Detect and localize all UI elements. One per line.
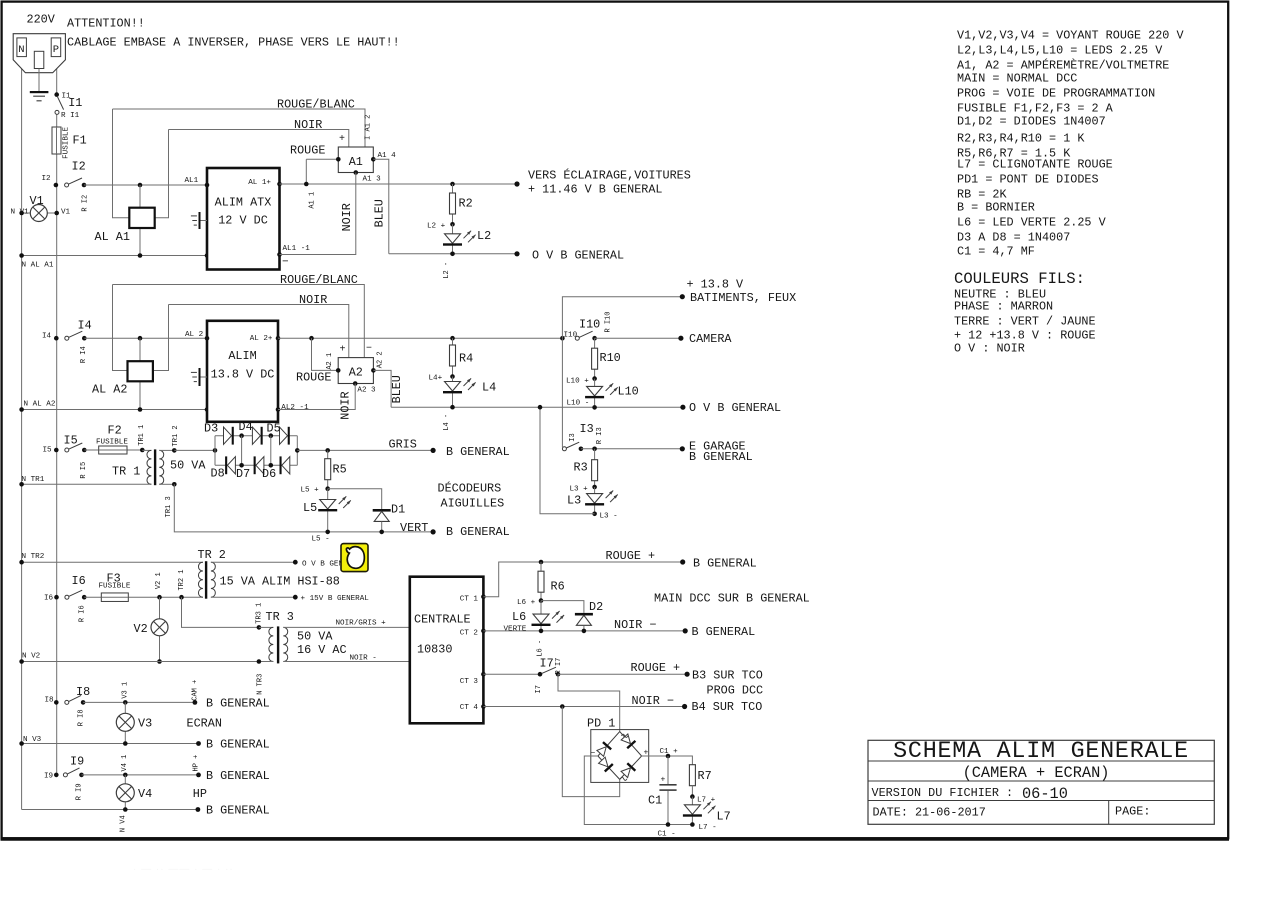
svg-text:L2 -: L2 -	[443, 262, 451, 279]
svg-text:V2 1: V2 1	[155, 572, 163, 589]
svg-text:I4: I4	[78, 319, 92, 333]
svg-text:C1 +: C1 +	[660, 748, 679, 756]
relay AL A2	[128, 361, 153, 381]
svg-text:R3: R3	[574, 461, 588, 475]
terminal HP B GENERAL	[196, 773, 201, 778]
svg-text:AL1: AL1	[185, 177, 199, 185]
wire: TR1 secondary to diode matrix	[174, 449, 215, 451]
svg-text:15 VA ALIM HSI-88: 15 VA ALIM HSI-88	[220, 575, 340, 589]
wire: A2 BLEU lead pin4 to 0V rail	[373, 370, 391, 407]
svg-text:N TR2: N TR2	[22, 553, 45, 561]
svg-text:TR 2: TR 2	[198, 548, 226, 562]
svg-text:ROUGE/BLANC: ROUGE/BLANC	[277, 98, 355, 112]
bridge diode bottom-right (B to R)	[627, 763, 635, 771]
junctions bottom chain	[239, 463, 244, 468]
bridge diode top-left (L to T)	[603, 742, 611, 749]
wire: I10 to CAMERA	[595, 337, 681, 339]
svg-text:TR1 1: TR1 1	[138, 425, 146, 446]
svg-text:R I5: R I5	[80, 462, 88, 479]
resistor R3	[594, 449, 596, 487]
svg-text:V4 1: V4 1	[121, 755, 129, 772]
svg-text:CT 4: CT 4	[460, 704, 479, 712]
svg-text:ALIM: ALIM	[228, 349, 256, 363]
svg-text:L5: L5	[303, 501, 317, 515]
svg-text:CT 2: CT 2	[460, 629, 479, 637]
svg-text:L2 +: L2 +	[427, 223, 446, 231]
svg-text:AL1 -1: AL1 -1	[283, 245, 311, 253]
resistor R4	[452, 338, 454, 376]
wire: I8 to CAM+ B GENERAL	[83, 701, 195, 703]
LED L7 clignotante	[691, 797, 693, 825]
svg-text:FUSIBLE: FUSIBLE	[99, 583, 131, 591]
transformer TR 1 primary	[142, 449, 151, 451]
terminal CAM B GENERAL	[193, 700, 198, 705]
resistor R7	[689, 765, 695, 786]
svg-text:N AL A2: N AL A2	[24, 401, 56, 409]
svg-text:TR 1: TR 1	[112, 465, 140, 479]
terminal B GENERAL (N V3)	[196, 741, 201, 746]
svg-text:N: N	[18, 44, 24, 56]
svg-text:· — ·· —— · — · ··: · — ·· —— · — · ··	[133, 864, 234, 875]
svg-text:−: −	[282, 257, 289, 269]
junction L3 anode	[592, 485, 597, 490]
wire: A1 BLEU lead pin4 to 0V rail	[373, 159, 389, 254]
wire: A1 NOIR lead pin3 to minus rail	[280, 173, 356, 255]
svg-text:R2,R3,R4,R10 = 1 K: R2,R3,R4,R10 = 1 K	[957, 132, 1085, 146]
svg-text:V4: V4	[138, 787, 152, 801]
wire: 0V rail to O V B GENERAL	[389, 253, 517, 255]
svg-text:D4: D4	[239, 420, 253, 434]
svg-text:NOIR/GRIS +: NOIR/GRIS +	[336, 619, 387, 627]
svg-text:L6 +: L6 +	[517, 599, 536, 607]
resistor R10	[594, 338, 596, 378]
wire: I7 jog to PD1 AC top	[558, 674, 620, 731]
svg-text:TR2 1: TR2 1	[178, 570, 186, 591]
transformer TR 2 core	[205, 561, 207, 599]
power supply ALIM 13.8 V DC box	[207, 321, 278, 422]
wire: CT1 to ROUGE+ rail	[483, 562, 682, 597]
svg-text:+ 11.46 V B GENERAL: + 11.46 V B GENERAL	[528, 183, 663, 197]
wire: I3 to E GARAGE	[581, 448, 682, 450]
svg-text:C1: C1	[648, 794, 662, 808]
svg-text:NOIR: NOIR	[340, 203, 354, 231]
svg-text:PROG = VOIE DE PROGRAMMATION: PROG = VOIE DE PROGRAMMATION	[957, 87, 1155, 101]
diode D1 branch	[328, 489, 382, 509]
junction L7 cathode	[690, 822, 695, 827]
ammeter A1 ROUGE lead	[305, 159, 307, 184]
svg-text:NOIR: NOIR	[339, 391, 353, 419]
svg-text:I4: I4	[42, 333, 52, 341]
wire: phase P vertical line lower	[56, 185, 58, 775]
svg-text:V1,V2,V3,V4 = VOYANT ROUGE 220: V1,V2,V3,V4 = VOYANT ROUGE 220 V	[957, 29, 1184, 43]
svg-text:NOIR -: NOIR -	[350, 654, 377, 662]
svg-text:AL 1+: AL 1+	[248, 179, 271, 187]
wire: ALIM 13.8 +13.8V output rail	[278, 337, 562, 339]
svg-text:R I6: R I6	[79, 605, 87, 622]
diode D8	[227, 457, 235, 474]
svg-text:B GENERAL: B GENERAL	[206, 804, 270, 818]
svg-text:TR3 1: TR3 1	[255, 603, 263, 624]
svg-text:VERS ÉCLAIRAGE,VOITURES: VERS ÉCLAIRAGE,VOITURES	[528, 169, 691, 183]
svg-text:R10: R10	[600, 351, 621, 365]
ammeter A2 ROUGE lead	[309, 336, 314, 341]
ground symbol inside ALIM 13.8	[201, 376, 208, 378]
svg-text:B = BORNIER: B = BORNIER	[957, 201, 1035, 215]
svg-text:FUSIBLE: FUSIBLE	[96, 439, 128, 447]
svg-text:B GENERAL: B GENERAL	[689, 450, 753, 464]
svg-text:PAGE:: PAGE:	[1115, 805, 1150, 819]
bridge diode bottom-left (L to B)	[605, 764, 613, 771]
wire: relay A2 top/bottom leads	[139, 338, 141, 409]
power supply ALIM ATX 12V DC box	[207, 168, 280, 270]
svg-text:ECRAN: ECRAN	[187, 717, 222, 731]
svg-text:O V : NOIR: O V : NOIR	[954, 342, 1025, 356]
svg-text:O V B GENERAL: O V B GENERAL	[689, 401, 781, 415]
svg-text:D5: D5	[267, 422, 281, 436]
svg-text:NOIR: NOIR	[294, 118, 322, 132]
voyant lamp V2	[159, 597, 161, 661]
svg-text:B GENERAL: B GENERAL	[446, 445, 510, 459]
svg-text:L3 -: L3 -	[600, 513, 618, 521]
svg-text:L4+: L4+	[429, 375, 443, 383]
svg-text:I A1 2: I A1 2	[365, 115, 373, 140]
capacitor C1	[667, 756, 669, 784]
svg-text:AL A1: AL A1	[95, 230, 130, 244]
junction L4 anode	[450, 374, 455, 379]
svg-text:R5: R5	[333, 463, 347, 477]
svg-text:R I10: R I10	[604, 312, 612, 333]
svg-text:ROUGE/BLANC: ROUGE/BLANC	[280, 273, 358, 287]
svg-text:I9: I9	[44, 772, 54, 780]
wire: I7 to B3 SUR TCO	[558, 673, 687, 675]
voyant lamp V4	[124, 775, 126, 810]
svg-text:D3 A D8 = 1N4007: D3 A D8 = 1N4007	[957, 231, 1070, 245]
transformer TR 2 secondary	[211, 562, 215, 597]
diode D5	[280, 427, 288, 444]
svg-text:A1, A2 = AMPÉREMÈTRE/VOLTMETRE: A1, A2 = AMPÉREMÈTRE/VOLTMETRE	[957, 59, 1169, 73]
transformer TR 1 secondary	[159, 450, 163, 484]
svg-text:16 V AC: 16 V AC	[297, 643, 347, 657]
wire: ROUGE/BLANC net 2 (A2 minus)	[113, 285, 365, 358]
terminal B3 SUR TCO	[685, 672, 690, 677]
svg-text:R I3: R I3	[596, 427, 604, 444]
wire: I9 to HP+ B GENERAL	[82, 774, 199, 776]
svg-text:50 VA: 50 VA	[297, 630, 333, 644]
LED L5	[327, 489, 329, 532]
svg-text:FUSIBLE F1,F2,F3 = 2 A: FUSIBLE F1,F2,F3 = 2 A	[957, 102, 1114, 116]
resistor R5	[325, 448, 330, 453]
svg-text:MAIN DCC SUR B GENERAL: MAIN DCC SUR B GENERAL	[654, 592, 810, 606]
svg-text:L4: L4	[482, 381, 496, 395]
svg-text:BATIMENTS, FEUX: BATIMENTS, FEUX	[690, 291, 796, 305]
wire: PD1 minus loop to C1-	[584, 756, 692, 825]
svg-text:I5: I5	[64, 434, 78, 448]
diode D3	[224, 427, 232, 444]
svg-text:−: −	[591, 749, 596, 758]
svg-text:L4 -: L4 -	[443, 414, 451, 431]
command station CENTRALE 10830 box	[410, 577, 484, 724]
resistor R2	[452, 184, 454, 224]
wire: bottom N return line	[22, 809, 198, 811]
svg-text:SCHEMA ALIM GENERALE: SCHEMA ALIM GENERALE	[893, 739, 1189, 765]
svg-text:L2: L2	[477, 229, 491, 243]
transformer TR 1 core	[154, 449, 156, 485]
svg-text:RB = 2K: RB = 2K	[957, 188, 1007, 202]
svg-text:R I2: R I2	[82, 195, 90, 212]
svg-text:I1: I1	[68, 96, 82, 110]
svg-text:CABLAGE EMBASE A INVERSER, PHA: CABLAGE EMBASE A INVERSER, PHASE VERS LE…	[67, 36, 400, 50]
yellow logo icon	[341, 544, 368, 572]
svg-text:V1: V1	[61, 209, 71, 217]
earth ground symbol under plug	[30, 91, 49, 93]
wire: N AL A2 line	[22, 409, 207, 411]
wire: I3 feed from +13.8 branch	[561, 338, 563, 447]
LED L10	[594, 379, 596, 408]
svg-text:L6 = LED VERTE 2.25 V: L6 = LED VERTE 2.25 V	[957, 216, 1107, 230]
svg-text:A2: A2	[349, 366, 363, 380]
svg-text:P: P	[53, 44, 59, 56]
svg-text:TR1 3: TR1 3	[165, 496, 173, 517]
svg-text:L7: L7	[717, 810, 731, 824]
junctions top chain	[239, 433, 244, 438]
wire: earth lead from plug	[38, 69, 40, 92]
terminal O V B GE (TR2)	[293, 560, 298, 565]
svg-text:+ 13.8 V: + 13.8 V	[687, 278, 745, 292]
svg-text:R I4: R I4	[80, 346, 88, 363]
terminal +15V B GENERAL	[293, 595, 298, 600]
svg-text:VERSION DU FICHIER :: VERSION DU FICHIER :	[872, 786, 1014, 800]
wire: NOIR net 2 (A2 plus)	[169, 305, 349, 358]
svg-text:N TR3: N TR3	[257, 674, 265, 695]
transformer TR 3 core	[277, 626, 279, 663]
junction L10 anode	[592, 376, 597, 381]
svg-text:I7: I7	[540, 657, 554, 671]
fuse F1	[52, 127, 61, 154]
svg-text:A1 3: A1 3	[363, 176, 382, 184]
LED L3	[594, 487, 596, 514]
bridge diode top-right (T to R)	[627, 741, 635, 748]
transformer TR 2 primary	[198, 562, 202, 597]
junction L5 anode	[325, 486, 330, 491]
svg-text:F1: F1	[73, 134, 87, 148]
wire: CT4 NOIR- to B4	[483, 706, 684, 708]
svg-text:V3: V3	[138, 717, 152, 731]
relay AL A1	[129, 208, 154, 228]
svg-text:L3: L3	[567, 494, 581, 508]
junction L7 anode	[691, 786, 693, 797]
svg-text:B3 SUR TCO: B3 SUR TCO	[692, 669, 763, 683]
svg-text:PD1 = PONT DE DIODES: PD1 = PONT DE DIODES	[957, 173, 1099, 187]
LED L6 VERTE	[540, 601, 542, 631]
svg-text:AL A2: AL A2	[92, 383, 127, 397]
svg-text:+ 12 +13.8 V : ROUGE: + 12 +13.8 V : ROUGE	[954, 329, 1096, 343]
svg-text:N AL A1: N AL A1	[22, 262, 54, 270]
svg-text:L5 -: L5 -	[312, 536, 330, 544]
svg-text:AL 2+: AL 2+	[250, 335, 273, 343]
terminal O V B GENERAL (13.8 block)	[680, 405, 685, 410]
svg-text:I9: I9	[70, 755, 84, 769]
wire: TR2-1 down to TR3 primary	[182, 597, 259, 627]
wire: I4 to ALIM 13.8 input AL 2	[84, 337, 207, 339]
svg-text:N V1: N V1	[11, 209, 30, 217]
svg-text:+: +	[339, 134, 345, 145]
wire: N TR2 line	[22, 561, 203, 563]
svg-text:L10 +: L10 +	[566, 378, 589, 386]
wire: ALIM ATX +12V output rail	[280, 183, 518, 185]
svg-text:B GENERAL: B GENERAL	[693, 557, 757, 571]
svg-text:D1: D1	[391, 503, 405, 517]
junction relay AL A1 feed	[138, 183, 143, 188]
svg-text:12 V DC: 12 V DC	[218, 214, 268, 228]
wire: diode matrix frame	[214, 436, 216, 466]
svg-text:D6: D6	[262, 467, 276, 481]
title block	[868, 740, 1214, 824]
terminal NOIR- B GENERAL	[683, 628, 688, 633]
svg-text:NOIR: NOIR	[299, 293, 327, 307]
junction C1 plus	[666, 754, 671, 759]
svg-text:ATTENTION!!: ATTENTION!!	[67, 17, 145, 31]
svg-text:B GENERAL: B GENERAL	[446, 525, 510, 539]
svg-text:L6: L6	[512, 610, 526, 624]
svg-text:L6 -: L6 -	[537, 640, 545, 657]
wire: CT3 to I7	[483, 673, 540, 675]
svg-text:ROUGE: ROUGE	[296, 371, 331, 385]
terminal N TR3	[257, 659, 262, 664]
wire: CT4 to PD1 AC bottom	[562, 707, 619, 797]
svg-text:R4: R4	[459, 352, 473, 366]
svg-text:FUSIBLE: FUSIBLE	[63, 127, 71, 159]
svg-text:N TR1: N TR1	[22, 476, 45, 484]
terminal CAMERA	[678, 336, 683, 341]
wire: phase P line I1-F1-I2	[56, 115, 58, 186]
svg-text:L10 -: L10 -	[567, 400, 590, 408]
svg-text:R7: R7	[698, 769, 712, 783]
svg-text:A2 2: A2 2	[377, 351, 385, 368]
junction R4 top	[450, 336, 455, 341]
resistor R6	[539, 560, 544, 565]
wire: NOIR/GRIS + to CENTRALE	[283, 626, 410, 628]
svg-text:L7 +: L7 +	[697, 797, 716, 805]
svg-text:N V3: N V3	[23, 736, 42, 744]
svg-text:B GENERAL: B GENERAL	[206, 769, 270, 783]
wire: +13.8V BATIMENTS branch	[560, 336, 565, 341]
svg-text:+: +	[340, 345, 346, 356]
svg-text:−: −	[366, 344, 372, 355]
wire: NOIR net to A1 plus	[169, 130, 349, 148]
terminal B4 SUR TCO	[682, 704, 687, 709]
ammeter A2 box	[338, 358, 373, 384]
svg-text:220V: 220V	[27, 13, 56, 27]
svg-text:I2: I2	[72, 160, 86, 174]
svg-text:NOIR −: NOIR −	[632, 694, 674, 708]
svg-text:D7: D7	[236, 467, 250, 481]
svg-text:CAM +: CAM +	[191, 680, 199, 701]
svg-text:+: +	[661, 776, 666, 785]
wire: relay A2 coil sides	[113, 285, 128, 371]
svg-text:ROUGE +: ROUGE +	[631, 661, 681, 675]
svg-text:I6: I6	[44, 595, 54, 603]
voyant lamp V3	[124, 702, 126, 743]
svg-text:D2: D2	[589, 600, 603, 614]
wire: I2 to ALIM ATX input AL1	[84, 184, 207, 186]
svg-text:R I8: R I8	[78, 709, 86, 726]
svg-text:AL2 -1: AL2 -1	[281, 404, 309, 412]
junction L2 anode	[450, 222, 455, 227]
svg-text:(CAMERA + ECRAN): (CAMERA + ECRAN)	[963, 764, 1110, 782]
junction L6 anode	[539, 598, 544, 603]
svg-text:I8: I8	[45, 696, 55, 704]
wire: NOIR - to CENTRALE	[283, 661, 410, 663]
transformer TR 3 primary	[259, 626, 273, 628]
svg-text:TERRE : VERT / JAUNE: TERRE : VERT / JAUNE	[954, 315, 1096, 329]
svg-text:A2 3: A2 3	[357, 387, 376, 395]
wire: A2 NOIR lead pin3 to minus rail	[278, 384, 355, 410]
svg-text:PD 1: PD 1	[587, 717, 615, 731]
svg-text:NOIR −: NOIR −	[614, 618, 656, 632]
svg-text:DÉCODEURS: DÉCODEURS	[438, 482, 502, 496]
svg-text:F2: F2	[108, 424, 122, 438]
svg-text:L3 +: L3 +	[570, 486, 589, 494]
svg-text:DATE: 21-06-2017: DATE: 21-06-2017	[873, 806, 986, 820]
svg-text:+ 15V B GENERAL: + 15V B GENERAL	[301, 595, 370, 603]
svg-text:I2: I2	[42, 175, 52, 183]
svg-text:VERT: VERT	[400, 521, 428, 535]
svg-text:L7 -: L7 -	[699, 824, 717, 832]
transformer TR 3 secondary	[283, 627, 287, 661]
svg-text:HP: HP	[193, 787, 207, 801]
terminal +13.8V BATIMENTS FEUX	[680, 294, 685, 299]
wire: N AL A1 line	[22, 255, 207, 257]
svg-text:CT 3: CT 3	[460, 678, 479, 686]
svg-text:D3: D3	[204, 422, 218, 436]
junction L3 cathode	[592, 512, 597, 517]
junction TR2 1	[179, 595, 184, 600]
wire: L3 return to 0V rail	[540, 407, 595, 514]
LED L4	[452, 377, 454, 408]
diode D4	[252, 427, 260, 444]
svg-text:50 VA: 50 VA	[170, 459, 206, 473]
svg-text:CT 1: CT 1	[460, 596, 479, 604]
svg-text:ROUGE +: ROUGE +	[606, 549, 656, 563]
svg-text:R I1: R I1	[61, 112, 80, 120]
wire: VERT line from TR1 3	[174, 484, 433, 532]
terminal GRIS B GENERAL	[431, 448, 436, 453]
svg-text:C1 -: C1 -	[658, 831, 676, 839]
svg-text:C1 = 4,7 MF: C1 = 4,7 MF	[957, 245, 1035, 259]
svg-text:D8: D8	[211, 467, 225, 481]
svg-text:A2 1: A2 1	[326, 353, 334, 370]
svg-text:COULEURS FILS:: COULEURS FILS:	[954, 270, 1085, 288]
wire: 0V rail 13.8 block	[391, 406, 683, 408]
svg-text:HP +: HP +	[192, 755, 200, 772]
ammeter A1 box	[338, 147, 373, 173]
svg-text:TR1 2: TR1 2	[172, 425, 180, 446]
wire: matrix vertical links	[241, 436, 243, 466]
junction R2 top	[450, 182, 455, 187]
svg-text:ROUGE: ROUGE	[290, 144, 325, 158]
wire: CT2 NOIR- rail	[483, 630, 685, 632]
svg-text:A1: A1	[349, 155, 363, 169]
svg-text:L7 = CLIGNOTANTE ROUGE: L7 = CLIGNOTANTE ROUGE	[957, 158, 1113, 172]
svg-text:L10: L10	[618, 385, 639, 399]
220V mains plug	[13, 34, 65, 73]
svg-text:B GENERAL: B GENERAL	[206, 738, 270, 752]
svg-text:BLEU: BLEU	[390, 375, 404, 403]
svg-text:R I9: R I9	[76, 783, 84, 800]
svg-text:I5: I5	[43, 446, 53, 454]
svg-text:I3: I3	[580, 422, 594, 436]
svg-text:CAMERA: CAMERA	[689, 332, 732, 346]
